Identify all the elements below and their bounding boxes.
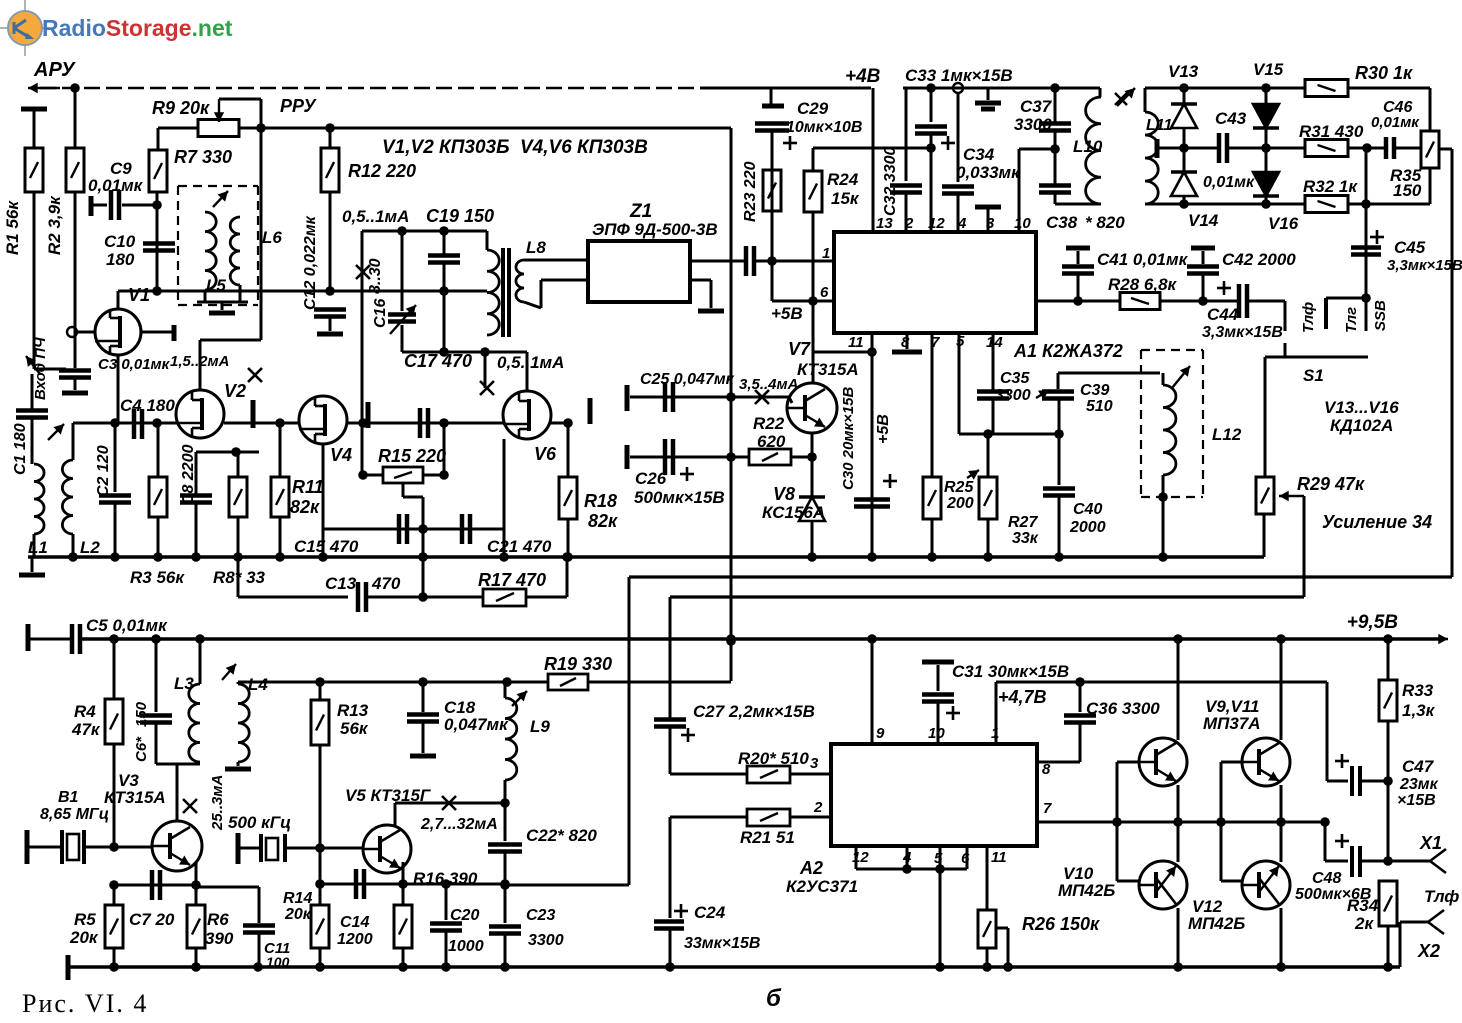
svg-text:25..3мА: 25..3мА — [209, 775, 226, 831]
svg-text:V8: V8 — [773, 484, 795, 504]
svg-text:R15 220: R15 220 — [378, 446, 446, 466]
svg-text:R34: R34 — [1347, 896, 1379, 915]
svg-text:С31 30мк×15В: С31 30мк×15В — [952, 662, 1069, 681]
svg-text:R20* 510: R20* 510 — [738, 749, 809, 768]
svg-text:×15В: ×15В — [1397, 792, 1436, 809]
svg-text:С37: С37 — [1020, 97, 1053, 116]
svg-text:1200: 1200 — [337, 931, 373, 948]
svg-text:8,65 МГц: 8,65 МГц — [40, 806, 109, 823]
svg-text:R19 330: R19 330 — [544, 654, 612, 674]
svg-text:11: 11 — [848, 334, 864, 351]
svg-text:R12 220: R12 220 — [348, 161, 416, 181]
svg-text:С6*: С6* — [133, 736, 150, 762]
svg-text:0,033мк: 0,033мк — [956, 163, 1021, 182]
svg-text:6: 6 — [820, 284, 829, 301]
svg-text:R28 6,8к: R28 6,8к — [1108, 275, 1178, 294]
svg-text:2: 2 — [904, 215, 914, 232]
svg-text:0,01мк: 0,01мк — [1371, 114, 1420, 131]
svg-text:С44: С44 — [1207, 305, 1239, 324]
svg-text:13: 13 — [876, 215, 893, 232]
svg-text:L11: L11 — [1146, 117, 1172, 134]
svg-text:R11: R11 — [292, 477, 324, 497]
svg-text:2,7...32мА: 2,7...32мА — [420, 816, 498, 833]
svg-text:С43: С43 — [1215, 109, 1247, 128]
svg-text:R33: R33 — [1402, 681, 1434, 700]
svg-text:390: 390 — [205, 929, 234, 948]
svg-text:МП42Б: МП42Б — [1188, 914, 1245, 933]
svg-text:V16: V16 — [1268, 214, 1299, 233]
svg-text:1: 1 — [991, 725, 999, 742]
svg-text:3,3мк×15В: 3,3мк×15В — [1202, 324, 1283, 341]
svg-text:R21 51: R21 51 — [740, 828, 795, 847]
svg-text:АРУ: АРУ — [33, 59, 76, 81]
svg-text:10: 10 — [928, 725, 945, 742]
svg-text:R26 150к: R26 150к — [1022, 914, 1100, 934]
svg-text:R3 56к: R3 56к — [130, 568, 185, 587]
svg-text:Усиление 34: Усиление 34 — [1322, 512, 1432, 532]
svg-text:V6: V6 — [534, 444, 557, 464]
svg-text:С15 470: С15 470 — [294, 537, 359, 556]
svg-text:3,5..4мА: 3,5..4мА — [739, 376, 798, 393]
svg-text:КС156А: КС156А — [762, 503, 825, 522]
svg-text:С40: С40 — [1073, 501, 1102, 518]
svg-text:12: 12 — [928, 215, 945, 232]
svg-text:КТ315А: КТ315А — [797, 360, 859, 379]
svg-text:L6: L6 — [262, 228, 282, 247]
svg-text:Тлф: Тлф — [1424, 887, 1459, 906]
svg-text:С1 180: С1 180 — [12, 423, 29, 475]
svg-text:L10: L10 — [1073, 137, 1103, 156]
svg-text:2000: 2000 — [1069, 519, 1106, 536]
svg-text:С47: С47 — [1402, 757, 1435, 776]
svg-text:С36 3300: С36 3300 — [1086, 699, 1160, 718]
svg-text:R17 470: R17 470 — [478, 570, 546, 590]
svg-text:8..30: 8..30 — [367, 258, 384, 294]
svg-text:С12 0,022мк: С12 0,022мк — [302, 215, 319, 310]
svg-text:С20: С20 — [450, 907, 479, 924]
svg-text:С10: С10 — [104, 232, 136, 251]
svg-text:V15: V15 — [1253, 60, 1284, 79]
svg-text:С7 20: С7 20 — [129, 910, 175, 929]
svg-text:С41 0,01мк: С41 0,01мк — [1097, 250, 1189, 269]
svg-text:R6: R6 — [207, 910, 229, 929]
svg-text:R31 430: R31 430 — [1299, 122, 1364, 141]
svg-text:0,047мк: 0,047мк — [444, 715, 509, 734]
svg-text:9: 9 — [876, 725, 885, 742]
svg-text:V7: V7 — [788, 339, 811, 359]
svg-text:С14: С14 — [340, 914, 369, 931]
svg-text:L1: L1 — [28, 538, 48, 557]
svg-text:С5 0,01мк: С5 0,01мк — [86, 616, 168, 635]
svg-text:V13: V13 — [1168, 62, 1199, 81]
svg-text:С26: С26 — [635, 469, 667, 488]
svg-text:С32 3300: С32 3300 — [882, 147, 899, 216]
svg-text:С23: С23 — [526, 907, 555, 924]
svg-text:R5: R5 — [74, 910, 96, 929]
svg-text:10: 10 — [1014, 215, 1031, 232]
svg-text:V2: V2 — [224, 381, 246, 401]
svg-text:А2: А2 — [799, 858, 823, 878]
svg-text:L8: L8 — [526, 238, 546, 257]
svg-text:R27: R27 — [1008, 514, 1038, 531]
svg-text:С35: С35 — [1000, 370, 1030, 387]
svg-text:С2 120: С2 120 — [95, 445, 112, 497]
svg-text:20к: 20к — [284, 906, 312, 923]
svg-text:150: 150 — [133, 701, 150, 727]
svg-text:RadioStorage.net: RadioStorage.net — [42, 15, 233, 41]
svg-text:L4: L4 — [248, 675, 268, 694]
svg-text:L9: L9 — [530, 717, 550, 736]
svg-text:20к: 20к — [69, 928, 99, 947]
svg-text:7: 7 — [1043, 800, 1052, 817]
svg-text:0,5..1мА: 0,5..1мА — [342, 207, 409, 226]
svg-text:R2 3,9к: R2 3,9к — [45, 195, 64, 255]
svg-text:0,01мк: 0,01мк — [1203, 174, 1255, 191]
svg-text:R25: R25 — [944, 479, 974, 496]
svg-text:Х1: Х1 — [1419, 833, 1442, 853]
svg-text:R1 56к: R1 56к — [3, 200, 22, 255]
svg-text:V14: V14 — [1188, 211, 1219, 230]
svg-text:+5В: +5В — [875, 414, 892, 444]
svg-text:С16: С16 — [372, 299, 389, 328]
svg-text:3: 3 — [810, 755, 819, 772]
svg-text:КТ315А: КТ315А — [104, 788, 166, 807]
svg-text:150: 150 — [1393, 181, 1422, 200]
svg-text:Х2: Х2 — [1417, 941, 1440, 961]
svg-text:R30 1к: R30 1к — [1355, 63, 1413, 83]
svg-text:КД102А: КД102А — [1330, 416, 1393, 435]
svg-text:33мк×15В: 33мк×15В — [684, 935, 760, 952]
svg-text:L3: L3 — [174, 674, 194, 693]
svg-text:L2: L2 — [80, 538, 100, 557]
svg-text:С25 0,047мк: С25 0,047мк — [640, 371, 735, 388]
svg-text:82к: 82к — [588, 511, 618, 531]
svg-text:0,01мк: 0,01мк — [88, 176, 144, 195]
svg-text:R29 47к: R29 47к — [1297, 474, 1365, 494]
svg-text:С24: С24 — [694, 903, 726, 922]
svg-text:S1: S1 — [1303, 366, 1324, 385]
svg-text:+9,5В: +9,5В — [1347, 612, 1399, 633]
svg-text:1,3к: 1,3к — [1402, 701, 1436, 720]
svg-text:0,5..1мА: 0,5..1мА — [497, 353, 564, 372]
svg-text:С22* 820: С22* 820 — [526, 826, 597, 845]
svg-text:82к: 82к — [290, 497, 320, 517]
svg-text:200: 200 — [946, 495, 974, 512]
svg-text:R13: R13 — [337, 701, 369, 720]
svg-text:3300: 3300 — [528, 932, 564, 949]
svg-text:23мк: 23мк — [1399, 776, 1439, 793]
svg-text:R24: R24 — [827, 170, 859, 189]
svg-text:11: 11 — [991, 849, 1007, 866]
svg-text:* 820: * 820 — [1085, 213, 1125, 232]
svg-text:+4В: +4В — [845, 66, 881, 87]
svg-text:R32 1к: R32 1к — [1303, 177, 1358, 196]
svg-text:С21 470: С21 470 — [487, 537, 552, 556]
svg-text:С19 150: С19 150 — [426, 206, 494, 226]
svg-text:V13...V16: V13...V16 — [1324, 398, 1399, 417]
svg-text:+5В: +5В — [771, 304, 803, 323]
svg-text:С29: С29 — [797, 99, 829, 118]
svg-text:47к: 47к — [71, 720, 101, 739]
svg-text:б: б — [766, 985, 782, 1012]
svg-text:R8* 33: R8* 33 — [213, 568, 266, 587]
svg-text:2: 2 — [813, 799, 823, 816]
svg-text:R7 330: R7 330 — [174, 147, 232, 167]
svg-text:С38: С38 — [1046, 213, 1078, 232]
svg-text:V1,V2 КП303Б: V1,V2 КП303Б — [382, 137, 510, 158]
svg-text:V4,V6 КП303В: V4,V6 КП303В — [520, 137, 648, 158]
svg-text:3300: 3300 — [995, 387, 1031, 404]
svg-text:56к: 56к — [340, 719, 369, 738]
svg-text:МП42Б: МП42Б — [1058, 881, 1115, 900]
svg-text:1000: 1000 — [448, 938, 484, 955]
svg-text:R4: R4 — [74, 702, 96, 721]
svg-text:А1 К2ЖА372: А1 К2ЖА372 — [1013, 341, 1123, 361]
svg-text:620: 620 — [757, 432, 786, 451]
svg-text:510: 510 — [1086, 398, 1113, 415]
svg-text:Тлг: Тлг — [1343, 307, 1360, 333]
svg-text:3300: 3300 — [1014, 115, 1052, 134]
svg-text:С4 180: С4 180 — [120, 396, 175, 415]
svg-text:180: 180 — [106, 250, 135, 269]
svg-text:МП37А: МП37А — [1203, 714, 1261, 733]
svg-text:С17 470: С17 470 — [404, 351, 472, 371]
svg-text:10мк×10В: 10мк×10В — [786, 119, 862, 136]
svg-text:R9 20к: R9 20к — [152, 98, 210, 118]
svg-text:С3 0,01мк: С3 0,01мк — [98, 356, 171, 373]
svg-text:2к: 2к — [1354, 914, 1374, 933]
svg-text:500мк×15В: 500мк×15В — [634, 488, 725, 507]
svg-text:V1: V1 — [128, 285, 150, 305]
svg-text:В1: В1 — [58, 789, 79, 806]
svg-text:С39: С39 — [1080, 382, 1109, 399]
svg-text:14: 14 — [986, 334, 1003, 351]
svg-text:РРУ: РРУ — [280, 96, 317, 116]
svg-text:С30 20мк×15В: С30 20мк×15В — [840, 386, 857, 490]
svg-text:С27 2,2мк×15В: С27 2,2мк×15В — [693, 702, 815, 721]
svg-text:С42 2000: С42 2000 — [1222, 250, 1296, 269]
svg-text:500 кГц: 500 кГц — [228, 813, 291, 832]
svg-text:SSB: SSB — [1372, 300, 1389, 331]
svg-text:С13: С13 — [325, 574, 357, 593]
svg-text:С34: С34 — [963, 145, 995, 164]
svg-text:Вход ПЧ: Вход ПЧ — [32, 337, 49, 400]
svg-text:К2УС371: К2УС371 — [786, 877, 858, 896]
svg-text:3: 3 — [986, 215, 995, 232]
svg-text:R14: R14 — [283, 890, 312, 907]
svg-text:R23 220: R23 220 — [742, 161, 759, 222]
svg-text:V4: V4 — [330, 445, 352, 465]
svg-text:С8 2200: С8 2200 — [180, 444, 197, 505]
svg-text:R18: R18 — [584, 491, 617, 511]
svg-text:1: 1 — [822, 245, 830, 262]
svg-text:Рис. VI. 4: Рис. VI. 4 — [22, 989, 148, 1018]
svg-text:Z1: Z1 — [629, 201, 652, 222]
svg-text:Тлф: Тлф — [1300, 302, 1317, 333]
svg-text:С45: С45 — [1394, 238, 1426, 257]
svg-text:R22: R22 — [753, 414, 785, 433]
svg-text:8: 8 — [1042, 761, 1051, 778]
svg-text:470: 470 — [371, 574, 401, 593]
svg-text:15к: 15к — [831, 189, 860, 208]
svg-text:ЭПФ 9Д-500-3В: ЭПФ 9Д-500-3В — [592, 220, 718, 239]
svg-text:С48: С48 — [1312, 870, 1341, 887]
svg-text:+4,7В: +4,7В — [998, 687, 1047, 707]
svg-text:33к: 33к — [1012, 530, 1039, 547]
svg-text:4: 4 — [957, 215, 967, 232]
svg-text:L12: L12 — [1212, 425, 1242, 444]
